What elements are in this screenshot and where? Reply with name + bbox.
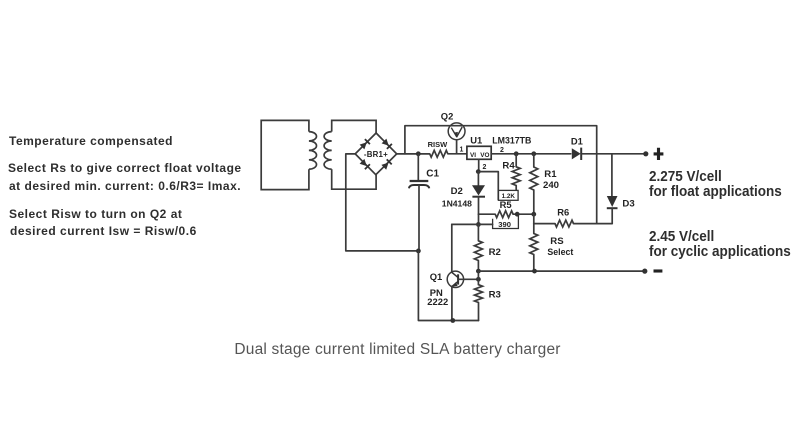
svg-text:D2: D2 — [451, 186, 463, 197]
wire RS top lead — [533, 214, 535, 233]
svg-text:RISW: RISW — [428, 140, 449, 149]
node R5 right — [515, 212, 520, 217]
node R1 top — [531, 151, 536, 156]
wire R6 left lead — [534, 223, 555, 225]
svg-text:1N4148: 1N4148 — [442, 199, 472, 209]
node plus terminal — [643, 151, 648, 156]
node Q1 emitter / negative rail — [450, 318, 455, 323]
resistor R2 — [474, 241, 482, 261]
plus symbol — [654, 148, 664, 160]
wire R5 left lead — [479, 213, 496, 215]
wire C1 top lead — [417, 154, 419, 180]
svg-text:U1: U1 — [470, 134, 482, 145]
svg-text:R2: R2 — [489, 247, 501, 258]
svg-text:C1: C1 — [426, 168, 439, 179]
value box 390 — [493, 214, 519, 228]
wire R3 bottom lead — [478, 303, 480, 321]
wire R3 top lead — [477, 271, 479, 285]
bridge diode bottom-right — [381, 163, 388, 170]
diode D2 — [472, 185, 485, 195]
resistor R1 — [530, 167, 538, 190]
op-amp regulator U1 LM317TB box — [467, 146, 491, 159]
node R1 bottom / RS top — [531, 212, 536, 217]
svg-text:RS: RS — [550, 236, 564, 247]
wire D1 to plus terminal — [582, 153, 646, 155]
svg-text:Q2: Q2 — [441, 111, 454, 122]
transistor Q1 — [447, 271, 463, 287]
wire R6 right lead — [574, 223, 612, 225]
svg-text:R1: R1 — [544, 169, 557, 180]
wire D2 node down — [478, 214, 480, 224]
wire R4 top lead — [515, 154, 517, 167]
resistor RISW — [430, 150, 448, 157]
svg-text:1: 1 — [460, 147, 464, 154]
node Q1 collector / R2 top — [476, 222, 481, 227]
wire Q1 base — [458, 278, 478, 280]
wire negative rail bottom — [418, 251, 478, 321]
wire D2 anode lead — [477, 172, 479, 186]
diode D1 — [572, 148, 581, 159]
svg-text:Select: Select — [547, 247, 573, 257]
svg-text:VI: VI — [470, 152, 476, 159]
node RS bottom — [532, 269, 537, 274]
node bridge+/C1 — [416, 151, 421, 156]
value box 1.2K — [499, 190, 519, 200]
bridge rectifier BR1 diamond — [355, 133, 397, 175]
svg-text:VO: VO — [480, 152, 489, 159]
wire R2 top lead — [477, 224, 479, 240]
transistor Q2 — [448, 123, 465, 140]
wire Q1 collector vertical — [451, 224, 453, 272]
node ADJ — [476, 169, 481, 174]
transformer T1 secondary top lead — [332, 120, 376, 133]
wire R4 bottom lead — [515, 186, 517, 191]
node C1 bottom / negative — [416, 249, 421, 254]
wire D2 cathode lead — [478, 197, 480, 215]
resistor R4 — [512, 167, 520, 186]
svg-text:390: 390 — [498, 220, 511, 229]
wire C1 bottom lead — [418, 185, 420, 251]
wire U1 output — [491, 153, 571, 155]
wire Q2 top loop — [405, 126, 597, 224]
bridge diode top-left — [360, 142, 367, 149]
svg-text:R5: R5 — [500, 199, 512, 210]
resistor R6 — [555, 220, 574, 227]
wire U1 adj lead — [478, 159, 480, 171]
transformer T1 primary winding coil — [309, 132, 317, 170]
bridge diode bottom-left — [360, 159, 367, 166]
resistor RS — [530, 234, 538, 255]
wire minus rail — [478, 270, 644, 272]
transformer T1 secondary winding coil — [324, 132, 332, 170]
node Q1 base / R3 top — [476, 277, 481, 282]
wire R1 top lead — [533, 154, 535, 167]
svg-text:R3: R3 — [489, 289, 501, 300]
transformer T1 secondary bottom lead — [332, 169, 376, 189]
wire R1 bottom lead — [533, 190, 535, 214]
svg-text:R4: R4 — [502, 160, 515, 171]
wire R2 bottom lead — [477, 261, 479, 272]
svg-text:D3: D3 — [622, 198, 634, 209]
minus symbol — [654, 269, 663, 272]
caption — [0, 341, 795, 359]
wire RISW to U1 — [448, 153, 467, 155]
wire D3 cathode lead — [611, 208, 613, 223]
svg-text:-BR1+: -BR1+ — [364, 150, 388, 159]
wire bridge negative to C1 bottom node — [346, 154, 419, 251]
node minus terminal — [642, 269, 647, 274]
wire R5 right lead — [513, 213, 534, 215]
capacitor C1 top plate — [410, 180, 429, 182]
svg-text:R6: R6 — [557, 206, 569, 217]
node R4 top — [514, 151, 519, 156]
resistor R3 — [475, 285, 483, 303]
wire D3 anode lead — [611, 154, 613, 196]
wire RS bottom lead — [533, 255, 535, 272]
capacitor C1 bottom plate — [409, 185, 429, 188]
svg-text:2: 2 — [483, 164, 487, 171]
wire Q1 collector horizontal — [452, 223, 493, 225]
svg-text:2222: 2222 — [427, 296, 448, 307]
resistor R5 — [495, 211, 513, 218]
svg-text:240: 240 — [543, 180, 559, 191]
transformer T1 primary loop — [261, 120, 309, 189]
svg-text:D1: D1 — [571, 135, 583, 146]
svg-text:LM317TB: LM317TB — [492, 136, 531, 146]
bridge diode top-right — [382, 139, 389, 146]
wire bridge positive to RISW — [397, 153, 430, 155]
svg-text:Q1: Q1 — [430, 271, 443, 282]
wire ADJ to 1.2K box — [478, 172, 498, 200]
wire Q1 emitter lead — [451, 286, 453, 320]
node R2 bottom / minus rail — [476, 269, 481, 274]
diode D3 — [607, 196, 618, 207]
